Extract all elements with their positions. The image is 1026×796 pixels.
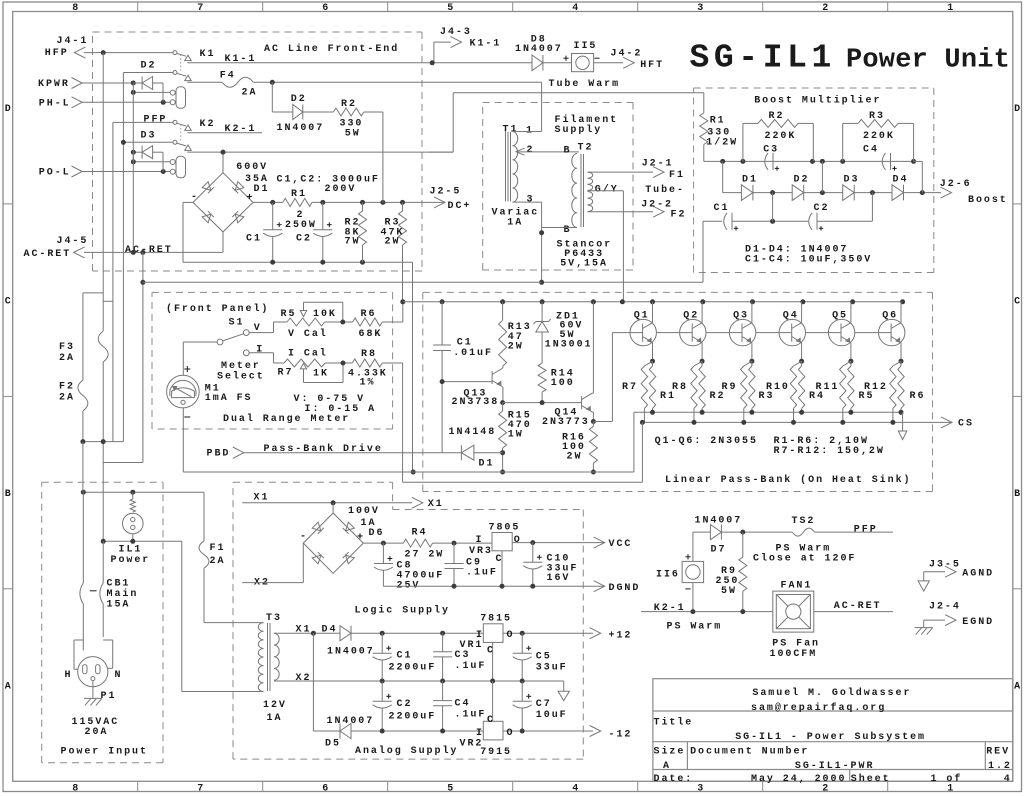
resistor R7 150 2W — [644, 361, 652, 366]
wire mid rail AGND — [303, 680, 563, 682]
svg-text:7915: 7915 — [480, 747, 512, 758]
svg-text:SG-IL1 - Power Subsystem: SG-IL1 - Power Subsystem — [735, 731, 926, 743]
relay contact arm K2 upper — [177, 123, 186, 126]
svg-text:1N4007: 1N4007 — [277, 123, 325, 134]
lamp IL1 Power — [130, 499, 135, 512]
wire F2 branch — [83, 292, 103, 294]
wire collector bus — [403, 301, 903, 303]
svg-text:2W: 2W — [508, 342, 524, 353]
svg-text:P1: P1 — [101, 691, 117, 702]
svg-text:VR3: VR3 — [469, 546, 493, 557]
resistor R2 2 10W — [701, 361, 703, 366]
svg-text:2A: 2A — [59, 353, 75, 364]
svg-text:15A: 15A — [107, 599, 131, 610]
svg-text:C: C — [496, 554, 502, 565]
resistor R9 250 5W — [742, 532, 744, 557]
node KPWR-D2 — [131, 81, 136, 86]
svg-text:K1-1: K1-1 — [225, 54, 257, 65]
svg-text:(Front Panel): (Front Panel) — [166, 303, 269, 315]
plug P1 — [78, 657, 108, 687]
svg-text:F2: F2 — [59, 382, 75, 393]
connector DGND — [594, 581, 605, 592]
svg-text:1N4007: 1N4007 — [327, 716, 375, 727]
wire bridge minus to rail — [183, 201, 193, 203]
resistor R1 2 250W — [283, 198, 312, 206]
svg-text:1.2: 1.2 — [988, 761, 1012, 772]
wire neutral to CB1 — [103, 540, 182, 542]
svg-text:C5: C5 — [536, 652, 552, 663]
svg-text:D1: D1 — [479, 458, 495, 469]
dashed box Boost Multiplier — [694, 87, 934, 89]
ground P1 — [92, 681, 94, 699]
svg-text:C2: C2 — [814, 203, 830, 214]
wire fan to AC-RET — [814, 611, 893, 613]
svg-text:R2: R2 — [769, 111, 785, 122]
wire R2-330 branch — [271, 82, 273, 112]
wire DC minus rail — [183, 261, 413, 263]
bridge rectifier D6 100V 1A — [332, 503, 334, 513]
svg-text:.1uF: .1uF — [466, 568, 498, 579]
wire I to R7 — [249, 352, 273, 354]
svg-text:H: H — [65, 670, 71, 681]
wire K2-1 stub — [187, 132, 262, 134]
svg-text:C2: C2 — [397, 699, 413, 710]
svg-text:EGND: EGND — [962, 617, 994, 628]
svg-text:II5: II5 — [574, 41, 598, 52]
svg-text:T3: T3 — [266, 613, 282, 624]
svg-text:Meter: Meter — [221, 361, 261, 372]
svg-text:1%: 1% — [360, 377, 376, 388]
resistor R11 150 2W — [843, 361, 851, 366]
wire AC2 to boost left end — [143, 281, 542, 283]
wire KPWR-D3 vertical — [132, 92, 134, 252]
wire -12 rail — [351, 730, 593, 732]
wire PFP — [113, 121, 173, 123]
svg-text:R7: R7 — [622, 382, 638, 393]
wire T3 primary bottom — [182, 691, 264, 693]
svg-text:7: 7 — [197, 783, 203, 794]
svg-text:2200uF: 2200uF — [389, 663, 437, 674]
svg-text:K2-1: K2-1 — [225, 124, 257, 135]
svg-text:Boost: Boost — [968, 195, 1008, 206]
capacitor C8 4700uF 25V — [382, 543, 384, 563]
svg-text:DGND: DGND — [609, 583, 641, 594]
svg-text:R10: R10 — [766, 382, 790, 393]
svg-text:R8: R8 — [672, 382, 688, 393]
relay contact K1 upper — [173, 51, 177, 55]
svg-text:J2-6: J2-6 — [940, 179, 972, 190]
svg-text:R9: R9 — [722, 382, 738, 393]
svg-text:F2: F2 — [671, 210, 687, 221]
svg-text:C: C — [1014, 297, 1020, 308]
svg-text:1N4007: 1N4007 — [327, 647, 375, 658]
frame column ticks — [137, 2, 139, 12]
svg-text:5V,15A: 5V,15A — [560, 258, 608, 269]
wire AC-RET drop vertical — [142, 252, 144, 462]
svg-text:Dual Range Meter: Dual Range Meter — [223, 413, 350, 425]
svg-text:Analog Supply: Analog Supply — [355, 745, 458, 757]
svg-text:Size: Size — [654, 746, 686, 758]
capacitor C9 .1uF — [453, 543, 455, 563]
svg-text:D2: D2 — [291, 94, 307, 105]
svg-text:D2: D2 — [141, 61, 157, 72]
wire left bus HFP vertical — [102, 53, 104, 542]
svg-text:R4: R4 — [412, 527, 428, 538]
svg-text:R11: R11 — [816, 382, 840, 393]
wire D6 minus to DGND — [382, 585, 384, 587]
wire Q14 emitter to base bus — [593, 421, 612, 423]
resistor R9 150 2W — [744, 361, 752, 366]
resistor R2 330 5W — [333, 108, 363, 116]
svg-text:2: 2 — [527, 145, 533, 156]
svg-text:G/Y: G/Y — [595, 183, 619, 195]
svg-text:Samuel M. Goldwasser: Samuel M. Goldwasser — [752, 687, 911, 699]
svg-text:1N4148: 1N4148 — [449, 427, 497, 438]
bridge HFP-PFP verticals — [103, 300, 113, 302]
svg-text:+12: +12 — [609, 631, 633, 642]
svg-text:3: 3 — [697, 3, 703, 14]
capacitor C1 2200uF analog — [381, 633, 383, 653]
svg-text:1W: 1W — [508, 429, 524, 440]
svg-text:K2-1: K2-1 — [654, 603, 686, 614]
svg-text:DC+: DC+ — [448, 201, 472, 212]
svg-text:5: 5 — [447, 783, 453, 794]
meter M1 — [184, 368, 190, 370]
svg-text:C4: C4 — [863, 144, 879, 155]
node HFP bus tap — [101, 50, 106, 55]
wire D7 to TS2 — [721, 531, 792, 533]
dotted link K1 contacts — [180, 55, 182, 72]
svg-text:D3: D3 — [141, 131, 157, 142]
svg-text:Power Input: Power Input — [61, 747, 148, 758]
svg-text:1 of: 1 of — [931, 773, 963, 785]
svg-text:Boost Multiplier: Boost Multiplier — [754, 95, 881, 107]
wire F4 to T1 — [253, 81, 541, 83]
svg-text:5W: 5W — [345, 129, 361, 140]
svg-text:Title: Title — [654, 716, 694, 728]
resistor R13 47 2W — [502, 302, 504, 321]
svg-text:4: 4 — [572, 3, 578, 14]
wire K2 contact2 — [123, 141, 173, 143]
wire K2 coil top — [133, 161, 170, 163]
wire fuse bottoms join — [83, 441, 124, 443]
capacitor C1 3000uF — [272, 202, 274, 229]
svg-text:33uF: 33uF — [536, 663, 568, 674]
svg-text:C1-C4: 10uF,350V: C1-C4: 10uF,350V — [745, 255, 872, 266]
capacitor C7 10uF — [521, 681, 523, 701]
relay contact arm K2 lower — [177, 143, 186, 146]
svg-text:T2: T2 — [578, 143, 594, 154]
svg-text:AC-RET: AC-RET — [24, 249, 72, 260]
svg-text:SG-IL1-PWR: SG-IL1-PWR — [795, 761, 875, 772]
svg-text:.1uF: .1uF — [455, 661, 487, 672]
svg-text:12V: 12V — [263, 700, 287, 711]
svg-text:N: N — [115, 670, 121, 681]
svg-text:R6: R6 — [361, 309, 377, 320]
capacitor C2 2200uF — [381, 681, 383, 701]
svg-text:FAN1: FAN1 — [781, 581, 813, 592]
wire K1 contact2 drop — [123, 72, 173, 74]
resistor R3 47K 2W — [402, 202, 404, 211]
resistor R8 150 2W — [694, 361, 702, 366]
wire boost diode row — [722, 161, 724, 192]
svg-text:68K: 68K — [359, 329, 383, 340]
svg-text:HFT: HFT — [640, 60, 664, 71]
svg-text:A: A — [663, 761, 671, 772]
wire K1 coil top — [133, 91, 170, 93]
svg-text:D1: D1 — [254, 184, 270, 195]
svg-text:D6: D6 — [369, 528, 385, 539]
resistor R6 2 10W — [900, 361, 902, 366]
relay contact arm K1 lower — [177, 73, 186, 76]
fuse F4 — [187, 81, 222, 83]
svg-text:D5: D5 — [325, 739, 341, 750]
svg-text:20A: 20A — [85, 727, 109, 738]
node PO-L-D3 — [161, 169, 166, 174]
svg-text:V Cal: V Cal — [288, 328, 328, 340]
svg-text:2A: 2A — [59, 393, 75, 404]
svg-text:2: 2 — [822, 783, 828, 794]
wire D6 output — [363, 542, 403, 544]
svg-text:J2-1: J2-1 — [642, 158, 674, 169]
svg-text:27 2W: 27 2W — [405, 550, 445, 561]
svg-text:C4: C4 — [455, 699, 471, 710]
resistor R3 220K boost — [842, 123, 844, 161]
svg-text:R3: R3 — [869, 111, 885, 122]
wire KPWR — [82, 82, 142, 84]
wire Q13 emitter row — [503, 402, 582, 404]
wire PO-L to coil — [82, 171, 170, 173]
svg-text:I Cal: I Cal — [288, 348, 328, 360]
svg-text:-: - — [191, 192, 197, 203]
svg-text:1K: 1K — [313, 369, 329, 380]
node DC- to output line — [411, 470, 416, 475]
svg-text:200V: 200V — [325, 184, 357, 195]
resistor R2 220K boost — [742, 123, 744, 161]
relay coil K2 — [176, 156, 186, 178]
svg-text:1/2W: 1/2W — [706, 137, 738, 149]
svg-text:A: A — [5, 682, 11, 693]
resistor R4 27 2W — [403, 539, 432, 547]
svg-text:-12: -12 — [609, 730, 633, 741]
wire +12 rail — [351, 632, 593, 634]
resistor R14 100 — [538, 363, 546, 392]
relay contact K1 lower — [173, 71, 177, 75]
svg-text:C2: C2 — [296, 234, 312, 245]
svg-text:D4: D4 — [893, 174, 909, 185]
svg-text:3: 3 — [527, 195, 533, 206]
svg-text:.1uF: .1uF — [455, 710, 487, 721]
svg-text:J2-5: J2-5 — [430, 187, 462, 198]
svg-text:F4: F4 — [220, 71, 236, 82]
svg-text:J2-2: J2-2 — [641, 200, 673, 211]
svg-text:220K: 220K — [765, 131, 797, 142]
svg-text:R8: R8 — [361, 349, 377, 360]
capacitor C5 33uF — [521, 633, 523, 653]
svg-text:2N3773: 2N3773 — [542, 417, 590, 428]
svg-text:SG-IL1: SG-IL1 — [690, 40, 836, 77]
wire R1 to DC+ arrow — [312, 201, 445, 203]
svg-text:D3: D3 — [844, 174, 860, 185]
relay contact K2 lower — [173, 140, 177, 144]
svg-text:J4-1: J4-1 — [57, 36, 89, 47]
svg-text:Document Number: Document Number — [690, 746, 809, 758]
svg-text:R1: R1 — [291, 189, 307, 200]
svg-text:8: 8 — [72, 783, 78, 794]
svg-text:B: B — [1014, 489, 1020, 500]
wire meter minus down — [182, 408, 184, 472]
capacitor C4 .1uF — [442, 681, 444, 701]
wire F4 down to T1 pin1 — [541, 82, 543, 131]
frame row ticks — [3, 203, 13, 205]
svg-text:C1: C1 — [246, 234, 262, 245]
wire K2 output to bridge — [187, 151, 453, 153]
svg-text:Q1-Q6: 2N3055: Q1-Q6: 2N3055 — [655, 436, 758, 447]
svg-text:AGND: AGND — [962, 569, 994, 580]
svg-text:2W: 2W — [567, 451, 583, 462]
svg-text:AC Line Front-End: AC Line Front-End — [264, 43, 399, 55]
svg-text:-: - — [300, 532, 306, 543]
svg-text:1A: 1A — [267, 713, 283, 724]
svg-text:Power Unit: Power Unit — [846, 46, 1010, 76]
wire R2-330 to DC+ — [364, 111, 383, 113]
svg-text:100: 100 — [551, 378, 575, 389]
dashed box Linear Pass-Bank — [423, 291, 933, 293]
capacitor C1 .01uF driver — [441, 302, 443, 345]
svg-text:1A: 1A — [507, 218, 523, 229]
svg-text:4: 4 — [1004, 774, 1012, 785]
svg-text:X1: X1 — [254, 493, 270, 504]
svg-text:D1: D1 — [742, 174, 758, 185]
svg-text:D2: D2 — [794, 174, 810, 185]
svg-text:VCC: VCC — [609, 539, 633, 550]
svg-text:2N3738: 2N3738 — [452, 397, 500, 408]
svg-text:VR1: VR1 — [460, 640, 484, 651]
fuse F1 2A — [203, 492, 205, 541]
wire Pass-Bank Drive — [244, 452, 462, 454]
title block column lines — [686, 742, 688, 770]
svg-text:REV: REV — [986, 747, 1010, 758]
node PH-L-D2 — [161, 100, 166, 105]
dashed box Front Panel meter — [152, 291, 393, 293]
svg-text:AC-RET: AC-RET — [834, 601, 882, 612]
svg-text:C7: C7 — [536, 699, 552, 710]
svg-text:4: 4 — [572, 783, 578, 794]
svg-text:B: B — [5, 489, 11, 500]
svg-text:7W: 7W — [345, 237, 361, 248]
svg-text:C1: C1 — [397, 651, 413, 662]
svg-text:R2: R2 — [341, 99, 357, 110]
svg-text:Sheet: Sheet — [851, 773, 891, 785]
svg-text:D7: D7 — [711, 545, 727, 556]
dashed box AC Line Front-End — [93, 31, 423, 33]
relay coil K1 — [176, 87, 186, 109]
svg-text:X1: X1 — [296, 625, 312, 636]
bridge rectifier D1 — [193, 173, 253, 232]
node R6 to bus — [400, 299, 405, 304]
wire K2 output down to bridge — [222, 152, 224, 173]
wire base drive rail CS — [642, 421, 952, 423]
resistor R4 2 10W — [801, 361, 803, 366]
svg-text:J4-5: J4-5 — [57, 236, 89, 247]
T2 secondary lower — [588, 192, 593, 212]
svg-text:PFP: PFP — [144, 115, 168, 126]
wire boost top rail — [704, 160, 914, 162]
svg-text:2A: 2A — [242, 88, 258, 99]
wire F2 output — [588, 211, 654, 213]
title block outline — [653, 679, 1013, 782]
svg-text:1: 1 — [947, 3, 953, 14]
svg-text:R5: R5 — [281, 309, 297, 320]
svg-text:Logic Supply: Logic Supply — [355, 605, 450, 617]
svg-text:Select: Select — [217, 371, 265, 383]
svg-text:2A: 2A — [210, 556, 226, 567]
relay contact K2 upper — [173, 120, 177, 124]
svg-text:220K: 220K — [863, 131, 895, 142]
wire X1 down to D5 — [312, 633, 314, 731]
wire V to R5 — [249, 332, 273, 334]
svg-text:C: C — [5, 297, 11, 308]
resistor R10 150 2W — [794, 361, 802, 366]
T2 secondary upper — [588, 172, 593, 190]
resistor R1 330 1/2W boost — [703, 93, 705, 113]
wire bridge bottom to AC-RET — [222, 232, 224, 253]
wire drive sense line — [403, 481, 643, 483]
wire T3 primary top — [204, 622, 264, 624]
svg-text:CB1: CB1 — [107, 578, 131, 589]
wire emitter rail — [634, 411, 903, 413]
wire K2AC up-over to boost — [430, 151, 453, 153]
svg-text:X1: X1 — [428, 499, 444, 510]
svg-text:5: 5 — [447, 3, 453, 14]
svg-text:F3: F3 — [59, 342, 75, 353]
node F4-D2 branch — [270, 80, 275, 85]
capacitor C10 33uF 16V — [532, 543, 534, 563]
resistor R5 2 10W — [850, 361, 852, 366]
resistor R2 8K 7W — [362, 202, 364, 211]
svg-text:C3: C3 — [763, 144, 779, 155]
wire F1 output — [588, 171, 654, 173]
wire boost bottom row — [542, 281, 703, 283]
svg-text:B: B — [564, 225, 570, 236]
capacitor C3 .1uF analog — [442, 633, 444, 652]
resistor R16 100 2W — [592, 422, 594, 427]
dashed box Power Input — [42, 481, 163, 483]
svg-text:3: 3 — [697, 783, 703, 794]
zener ZD1 60V 5W 1N3001 — [541, 302, 543, 322]
svg-text:IL1: IL1 — [119, 545, 143, 556]
svg-text:Main: Main — [107, 588, 139, 600]
svg-text:6: 6 — [322, 783, 328, 794]
wire DGND rail — [383, 585, 604, 587]
title block row lines — [653, 710, 1013, 712]
svg-text:K1-1: K1-1 — [470, 39, 502, 50]
svg-text:1N4007: 1N4007 — [515, 44, 563, 55]
svg-text:R1: R1 — [710, 116, 726, 127]
svg-text:1N4007: 1N4007 — [695, 516, 743, 527]
svg-text:HFP: HFP — [45, 48, 69, 59]
connector +12 — [590, 628, 601, 639]
svg-text:.01uF: .01uF — [453, 348, 493, 359]
wire PFP vertical — [112, 122, 114, 441]
svg-text:J3-5: J3-5 — [929, 560, 961, 571]
svg-text:C1: C1 — [714, 203, 730, 214]
svg-text:C3: C3 — [455, 650, 471, 661]
wire breaker to plug jog — [103, 639, 113, 641]
svg-text:+: + — [247, 193, 253, 204]
resistor R15 470 1W — [499, 411, 507, 448]
svg-text:+: + — [357, 533, 363, 544]
